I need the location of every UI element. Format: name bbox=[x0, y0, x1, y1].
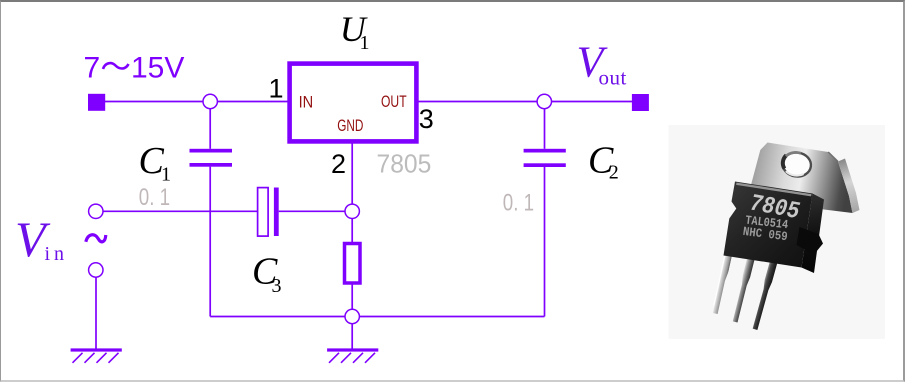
svg-text:2: 2 bbox=[609, 162, 619, 184]
leg 3 (right) bbox=[751, 256, 778, 330]
node Vin lower terminal bbox=[89, 263, 103, 277]
capacitor C1 bbox=[190, 149, 233, 153]
wire U1 GND pin down bbox=[351, 143, 353, 317]
capacitor C3 (polarized) bbox=[258, 188, 269, 237]
wire node to ground symbol bbox=[351, 317, 353, 350]
AC tilde symbol bbox=[86, 235, 106, 242]
svg-text:3: 3 bbox=[272, 275, 282, 297]
node mid junction bbox=[345, 204, 359, 218]
wire C1 top bbox=[209, 102, 211, 149]
body side bump bbox=[797, 227, 824, 255]
tab hole bbox=[781, 150, 813, 178]
op-amp U1 box (7805 regulator) bbox=[290, 64, 417, 142]
svg-text:3: 3 bbox=[419, 104, 434, 134]
node junction on output rail bbox=[537, 94, 551, 108]
wire C1 bottom to ground rail bbox=[209, 167, 211, 317]
wire Vin lower terminal to ground bbox=[95, 270, 97, 349]
ground symbol middle bbox=[327, 348, 378, 362]
terminal output square bbox=[632, 94, 649, 111]
metal tab front face bbox=[747, 143, 853, 214]
tab chamfer edge bbox=[828, 152, 838, 162]
svg-text:GND: GND bbox=[337, 116, 363, 135]
capacitor C2 bbox=[524, 149, 566, 153]
wire C3 to node bbox=[279, 210, 353, 212]
svg-text:0. 1: 0. 1 bbox=[503, 190, 534, 217]
photo background bbox=[669, 125, 886, 339]
svg-text:1: 1 bbox=[161, 163, 171, 185]
svg-text:7805: 7805 bbox=[377, 149, 432, 179]
wire Vin to C3 bbox=[96, 210, 257, 212]
svg-text:1: 1 bbox=[360, 32, 370, 54]
svg-text:IN: IN bbox=[299, 92, 314, 111]
svg-text:15V: 15V bbox=[131, 52, 184, 85]
resistor R1 bbox=[345, 244, 361, 284]
photo of 7805 TO-220 package bbox=[669, 125, 886, 339]
body top chamfer bbox=[736, 184, 811, 196]
terminal input square bbox=[88, 94, 105, 111]
leg 2 (middle) bbox=[731, 253, 755, 323]
ground symbol left bbox=[71, 348, 122, 362]
node Vin upper terminal bbox=[89, 204, 103, 218]
black body bbox=[724, 182, 813, 268]
svg-text:in: in bbox=[45, 243, 69, 265]
net label 7~15V bbox=[84, 52, 185, 85]
svg-text:1: 1 bbox=[269, 73, 284, 103]
svg-text:7: 7 bbox=[84, 52, 101, 85]
wire ground rail bbox=[210, 316, 544, 318]
wire C2 top bbox=[544, 102, 546, 149]
leg 1 (left) bbox=[711, 250, 732, 314]
body right side face bbox=[802, 194, 825, 274]
wire input rail bbox=[96, 101, 288, 103]
node junction on input rail bbox=[203, 94, 217, 108]
svg-text:2: 2 bbox=[331, 149, 346, 179]
node ground rail junction bbox=[345, 309, 359, 323]
metal tab right side face bbox=[838, 159, 860, 214]
wire output rail bbox=[418, 101, 640, 103]
svg-text:OUT: OUT bbox=[381, 92, 407, 111]
svg-text:0. 1: 0. 1 bbox=[139, 184, 170, 211]
wire C2 bottom bbox=[544, 167, 546, 317]
svg-text:out: out bbox=[599, 66, 627, 90]
